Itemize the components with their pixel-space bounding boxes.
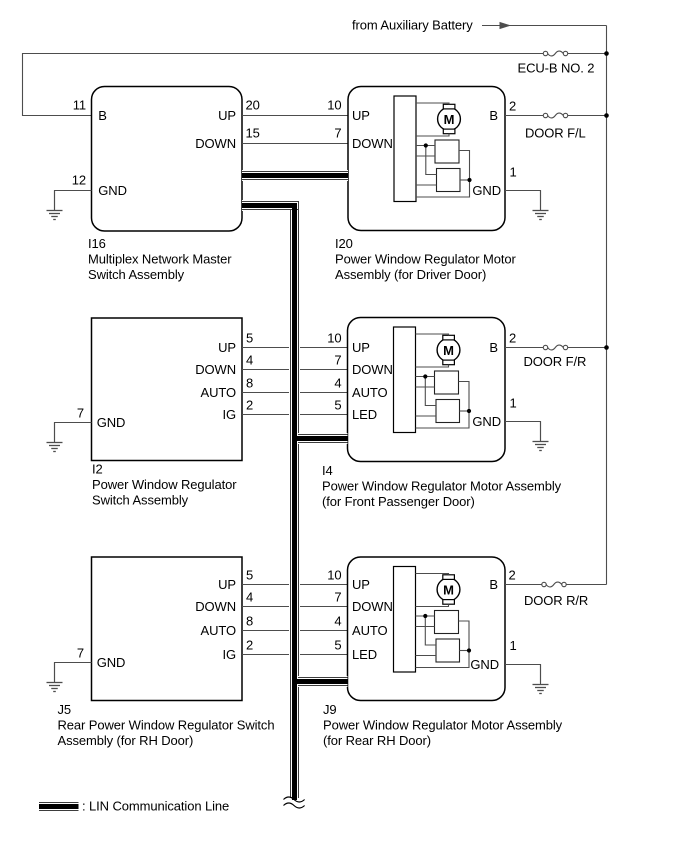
svg-text:UP: UP [218,577,236,592]
block I16 Multiplex Network Master Switch Assembly [92,87,243,232]
svg-text:UP: UP [218,340,236,355]
wire LIN thick I16 to I20 [242,170,348,181]
svg-text:UP: UP [352,108,370,123]
label ECU-B NO. 2 [518,61,595,76]
svg-text:IG: IG [222,407,236,422]
svg-text:5: 5 [246,331,253,346]
svg-text:7: 7 [334,126,341,141]
wire LIN thick branch to J9 [292,676,348,687]
pin number labels between I2 and I4 [246,331,342,413]
svg-text:UP: UP [352,577,370,592]
fuse ECU-B NO. 2 [543,51,567,56]
svg-text:7: 7 [334,590,341,605]
wire B pin 2 of I20 to battery line [505,115,607,117]
pin label B of J9 [489,577,498,592]
svg-text:M: M [443,343,454,358]
pin 1 label of I4 [510,396,517,411]
svg-text:GND: GND [472,183,501,198]
block I4 Power Window Regulator Motor Assembly (Front Passenger Door) [348,318,506,462]
pin label UP of I4 [352,340,370,355]
caption I4 [322,463,562,509]
svg-text:GND: GND [98,183,127,198]
svg-text:15: 15 [246,126,260,141]
svg-text:GND: GND [472,414,501,429]
pin label UP of J9 [352,577,370,592]
svg-text:10: 10 [327,568,341,583]
pin 2 label of I4 [509,331,516,346]
svg-text:20: 20 [246,98,260,113]
svg-text:ECU-B NO. 2: ECU-B NO. 2 [518,61,595,76]
pin label IG of I2 [222,407,236,422]
wire B pin 2 of J9 to battery line [505,584,607,586]
legend LIN communication line sample [39,801,79,812]
svg-text:Power Window Regulator Motor: Power Window Regulator Motor [335,252,516,267]
node junction DOOR F/R / battery line [604,345,609,350]
svg-text:Multiplex Network Master: Multiplex Network Master [88,252,232,267]
svg-text:B: B [489,577,498,592]
svg-text:DOOR F/L: DOOR F/L [525,126,586,141]
fuse DOOR R/R [542,582,566,587]
ground for I2 [47,423,63,452]
svg-text:8: 8 [246,614,253,629]
svg-text:12: 12 [72,173,86,188]
ground for I16 [47,191,63,220]
svg-text:: LIN Communication Line: : LIN Communication Line [82,799,229,814]
pin label UP of I16 [218,108,236,123]
motor and relay circuit inside I20 [394,96,472,202]
pin number labels between J5 and J9 [246,568,342,653]
pin label DOWN of I16 [195,136,236,151]
pin label DOWN of I20 [352,136,393,151]
motor and relay circuit inside I4 [394,327,472,433]
svg-text:4: 4 [334,614,341,629]
pin label DOWN of J5 [195,599,236,614]
wire LIN thick branch to I4 [292,433,348,444]
svg-text:I20: I20 [335,236,353,251]
pin label IG of J5 [222,647,236,662]
label DOOR R/R [524,593,588,608]
wire LIN bus thick from I16 down the page [242,200,300,800]
svg-text:5: 5 [334,398,341,413]
pin label AUTO of I2 [201,385,236,400]
block I20 Power Window Regulator Motor Assembly (Driver Door) [348,87,505,231]
wire GND pin 1 of I4 [505,422,541,442]
svg-text:GND: GND [97,415,126,430]
pin label AUTO of J9 [352,623,387,638]
pin label GND of I16 [98,183,127,198]
caption J9 [323,702,563,748]
svg-text:DOWN: DOWN [352,362,393,377]
svg-text:I2: I2 [92,462,103,477]
svg-text:(for Front Passenger Door): (for Front Passenger Door) [322,494,475,509]
svg-text:Assembly (for RH Door): Assembly (for RH Door) [58,733,194,748]
wire GND pin 1 of I20 [505,191,541,211]
pin 7 label (I20 DOWN) [334,126,341,141]
caption I16 [88,236,232,282]
wire ECU-B NO. 2 feed from left frame to battery line [23,54,607,116]
pin 20 label [246,98,260,113]
pin label GND of J5 [97,655,126,670]
node junction DOOR F/L / battery line [604,113,609,118]
pin 2 label of I20 [509,99,516,114]
svg-text:M: M [444,112,455,127]
svg-text:DOWN: DOWN [352,136,393,151]
svg-text:LED: LED [352,407,377,422]
wires UP DOWN AUTO LED from I2 to I4 [242,348,348,415]
pin label UP of J5 [218,577,236,592]
wire from auxiliary battery feed (arrow) and battery vertical line [482,22,607,585]
svg-text:DOWN: DOWN [195,136,236,151]
svg-text:4: 4 [246,590,253,605]
pin label DOWN of J9 [352,599,393,614]
wire DOWN I16 to I20 [242,143,348,145]
svg-text:AUTO: AUTO [201,623,236,638]
svg-text:J5: J5 [58,702,72,717]
block J9 Power Window Regulator Motor Assembly (Rear RH Door) [348,557,506,701]
pin label GND of I4 [472,414,501,429]
wire GND pin 12 of I16 [55,191,92,211]
caption I2 [92,462,237,508]
label from Auxiliary Battery [352,18,473,33]
svg-text:2: 2 [509,99,516,114]
pin label GND of I20 [472,183,501,198]
svg-text:2: 2 [246,638,253,653]
pin label B of I4 [489,340,498,355]
pin label AUTO of J5 [201,623,236,638]
motor and relay circuit inside J9 [394,567,472,673]
label DOOR F/L [525,126,586,141]
svg-text:Rear Power Window Regulator Sw: Rear Power Window Regulator Switch [58,718,275,733]
pin label GND of J9 [470,657,499,672]
caption I20 [335,236,516,282]
pin label LED of J9 [352,647,377,662]
svg-text:GND: GND [470,657,499,672]
svg-text:Power Window Regulator Motor A: Power Window Regulator Motor Assembly [322,479,562,494]
wire GND pin 7 of I2 [55,423,92,443]
ground for I4 [533,422,549,451]
svg-text:DOWN: DOWN [195,362,236,377]
label DOOR F/R [524,354,587,369]
svg-text:GND: GND [97,655,126,670]
svg-text:M: M [443,582,454,597]
pin 1 label of I20 [510,165,517,180]
pin 11 label of I16 [73,98,86,113]
svg-text:Switch Assembly: Switch Assembly [88,267,185,282]
pin label DOWN of I4 [352,362,393,377]
ground for J5 [47,663,63,692]
svg-text:2: 2 [509,331,516,346]
svg-text:1: 1 [510,165,517,180]
wire B pin 2 of I4 to battery line [505,347,607,349]
svg-text:11: 11 [73,98,86,113]
pin label B of I20 [489,108,498,123]
fuse DOOR F/R [543,345,567,350]
svg-text:Switch Assembly: Switch Assembly [92,493,189,508]
svg-text:7: 7 [77,406,84,421]
pin 1 label of J9 [510,638,517,653]
svg-text:4: 4 [246,353,253,368]
svg-text:7: 7 [77,646,84,661]
svg-text:AUTO: AUTO [352,385,387,400]
svg-text:Power Window Regulator Motor A: Power Window Regulator Motor Assembly [323,718,563,733]
block J5 Rear Power Window Regulator Switch Assembly [92,557,243,701]
fuse DOOR F/L [543,113,567,118]
ground for I20 [533,191,549,220]
wire UP I16 to I20 [242,115,348,117]
svg-text:(for Rear RH Door): (for Rear RH Door) [323,733,431,748]
svg-text:B: B [489,108,498,123]
wire GND pin 1 of J9 [505,665,541,684]
svg-text:B: B [98,108,107,123]
svg-text:Power Window Regulator: Power Window Regulator [92,477,237,492]
svg-text:UP: UP [218,108,236,123]
svg-text:5: 5 [334,638,341,653]
pin label DOWN of I2 [195,362,236,377]
pin 12 label of I16 [72,173,86,188]
pin 7 label of I2 [77,406,84,421]
pin label UP of I2 [218,340,236,355]
node junction ECU-B / battery line [604,51,609,56]
wire GND pin 7 of J5 [55,663,92,683]
svg-text:J9: J9 [323,702,337,717]
svg-text:7: 7 [334,353,341,368]
pin label GND of I2 [97,415,126,430]
svg-text:1: 1 [510,396,517,411]
svg-text:from Auxiliary Battery: from Auxiliary Battery [352,18,473,33]
svg-text:1: 1 [510,638,517,653]
svg-text:4: 4 [334,376,341,391]
svg-text:2: 2 [246,398,253,413]
svg-text:10: 10 [327,331,341,346]
svg-text:AUTO: AUTO [352,623,387,638]
svg-text:UP: UP [352,340,370,355]
pin 10 label (I20 UP) [327,98,341,113]
ground for J9 [533,665,549,694]
svg-text:5: 5 [246,568,253,583]
svg-text:B: B [489,340,498,355]
svg-text:DOWN: DOWN [195,599,236,614]
svg-text:I16: I16 [88,236,106,251]
svg-text:10: 10 [327,98,341,113]
block I2 Power Window Regulator Switch Assembly [92,318,243,461]
pin label B of I16 [98,108,107,123]
pin 15 label [246,126,260,141]
svg-text:DOOR F/R: DOOR F/R [524,354,587,369]
pin label UP of I20 [352,108,370,123]
svg-text:IG: IG [222,647,236,662]
caption J5 [58,702,275,748]
pin 2 label of J9 [509,568,516,583]
pin 7 label of J5 [77,646,84,661]
wires UP DOWN AUTO LED from J5 to J9 [242,585,348,655]
svg-text:2: 2 [509,568,516,583]
pin label AUTO of I4 [352,385,387,400]
legend label LIN Communication Line [82,799,229,814]
svg-text:AUTO: AUTO [201,385,236,400]
svg-text:8: 8 [246,376,253,391]
wire break symbol at bottom of LIN bus [284,797,305,808]
svg-text:LED: LED [352,647,377,662]
svg-text:I4: I4 [322,463,333,478]
pin label LED of I4 [352,407,377,422]
svg-text:DOOR R/R: DOOR R/R [524,593,588,608]
svg-text:DOWN: DOWN [352,599,393,614]
svg-text:Assembly (for Driver Door): Assembly (for Driver Door) [335,267,486,282]
